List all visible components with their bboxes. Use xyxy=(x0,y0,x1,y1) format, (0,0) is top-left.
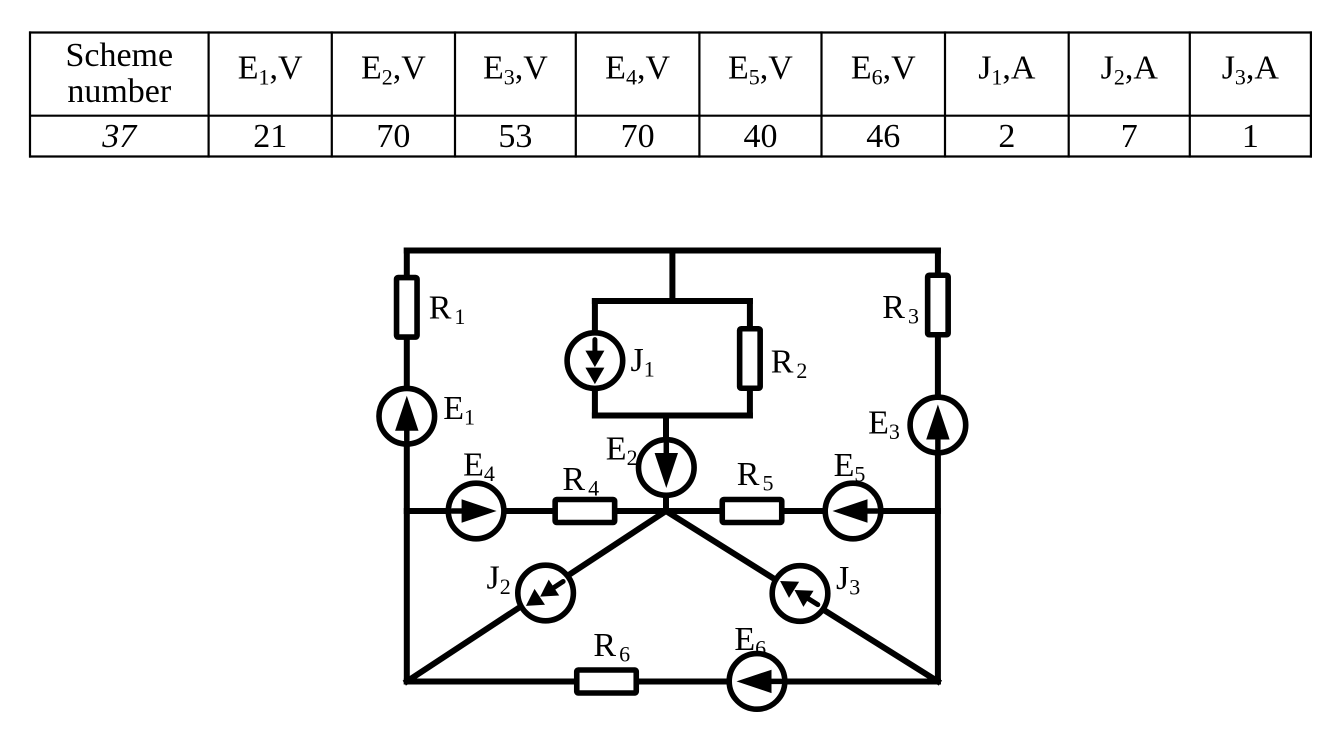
resistor R4 xyxy=(555,500,615,523)
wire: right branch xyxy=(935,251,941,682)
svg-text:70: 70 xyxy=(621,118,655,155)
junction: central node xyxy=(663,508,669,514)
svg-text:E4: E4 xyxy=(463,446,495,486)
svg-text:J3: J3 xyxy=(836,560,860,600)
emf source E6 xyxy=(729,654,785,710)
wire: parallel box bottom xyxy=(595,413,750,419)
wire: left diagonal (node to bottom-left corner) xyxy=(407,511,666,682)
svg-text:E2: E2 xyxy=(606,431,638,471)
svg-text:37: 37 xyxy=(101,118,138,155)
wire: parallel box right (R2 branch) xyxy=(747,301,753,416)
svg-text:E3,V: E3,V xyxy=(483,50,548,90)
wire: parallel box left (J1 branch) xyxy=(592,301,598,416)
svg-text:1: 1 xyxy=(1242,118,1259,155)
emf source E3 xyxy=(910,397,966,453)
current source J3 xyxy=(772,566,828,622)
svg-text:R5: R5 xyxy=(737,456,774,496)
current source J2 xyxy=(518,565,574,621)
svg-text:J2,A: J2,A xyxy=(1101,50,1159,90)
svg-text:70: 70 xyxy=(376,118,410,155)
svg-text:53: 53 xyxy=(498,118,532,155)
current source J1 xyxy=(567,333,623,389)
emf source E5 xyxy=(825,483,881,539)
svg-text:R4: R4 xyxy=(562,461,599,501)
svg-text:R2: R2 xyxy=(771,344,808,384)
svg-text:E1: E1 xyxy=(443,390,475,430)
emf source E4 xyxy=(448,483,504,539)
svg-text:J1,A: J1,A xyxy=(978,50,1036,90)
svg-text:21: 21 xyxy=(253,118,287,155)
svg-text:40: 40 xyxy=(743,118,777,155)
svg-text:R1: R1 xyxy=(429,290,466,330)
svg-text:E2,V: E2,V xyxy=(361,50,426,90)
resistor R1 xyxy=(397,278,418,338)
svg-text:E5: E5 xyxy=(834,447,866,487)
wire: left branch xyxy=(404,251,410,682)
svg-text:E6,V: E6,V xyxy=(851,50,916,90)
resistor R2 xyxy=(740,329,761,389)
svg-text:J1: J1 xyxy=(631,342,655,382)
svg-text:J3,A: J3,A xyxy=(1222,50,1280,90)
emf source E2 xyxy=(639,440,695,496)
wire: right diagonal (node to bottom-right corner) xyxy=(666,511,938,682)
svg-text:2: 2 xyxy=(998,118,1015,155)
svg-text:7: 7 xyxy=(1121,118,1138,155)
svg-text:E1,V: E1,V xyxy=(238,50,303,90)
resistor R6 xyxy=(577,670,637,693)
svg-text:46: 46 xyxy=(866,118,900,155)
svg-text:J2: J2 xyxy=(487,560,511,600)
wire: bottom bus xyxy=(407,679,938,685)
wire: drop from top bus to parallel box xyxy=(669,251,675,302)
resistor R5 xyxy=(722,500,782,523)
emf source E1 xyxy=(379,388,435,444)
svg-text:Scheme: Scheme xyxy=(65,37,173,74)
wire: middle bus xyxy=(407,508,938,514)
resistor R3 xyxy=(928,275,949,335)
svg-text:E4,V: E4,V xyxy=(605,50,670,90)
svg-text:E6: E6 xyxy=(734,621,766,661)
svg-text:E5,V: E5,V xyxy=(728,50,793,90)
svg-text:number: number xyxy=(67,73,172,110)
svg-text:E3: E3 xyxy=(868,405,900,445)
table: scheme parameter table frame xyxy=(29,31,1312,157)
svg-text:R3: R3 xyxy=(882,289,919,329)
wire: top bus xyxy=(407,248,938,254)
wire: parallel box top xyxy=(595,298,750,304)
wire: E2 branch from box to central node xyxy=(663,416,669,512)
svg-text:R6: R6 xyxy=(593,627,630,667)
